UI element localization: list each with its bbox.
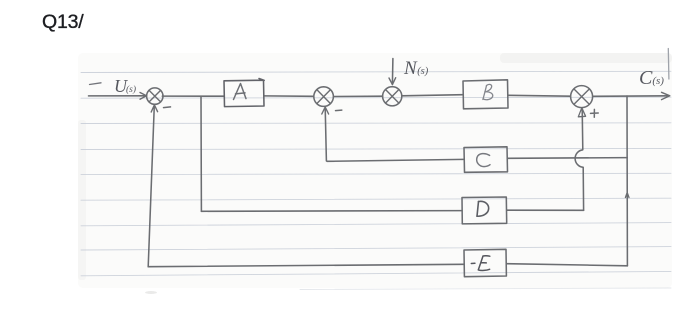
stray dash above input (90, 83, 102, 85)
wire C row right (508, 157, 627, 160)
block B (463, 80, 508, 109)
node takeoff after S4 down to C and E rows (626, 96, 628, 266)
wire input U(s) (89, 95, 147, 97)
wire D row right (507, 209, 584, 211)
wire block A to S2 (264, 95, 314, 97)
block A box (224, 79, 264, 107)
paper photo background (78, 53, 672, 288)
wire B to S4 (508, 94, 570, 97)
wire E feedback up into S1 (148, 105, 154, 266)
paper shading smudges (78, 53, 672, 294)
wire C row left (327, 159, 464, 161)
label U(s) (114, 76, 136, 97)
wire S1 to block A (162, 95, 224, 97)
label C(s) (639, 67, 664, 90)
minus sign at S1 (164, 106, 171, 109)
letter C in block C (477, 154, 490, 167)
node takeoff to D path (200, 96, 202, 211)
wire E row right (506, 264, 627, 266)
letter E in block E (471, 256, 490, 271)
small arrow mark on takeoff line (625, 193, 629, 198)
wire E row left (148, 264, 464, 266)
summing junction S3 (383, 87, 402, 106)
block D (462, 197, 507, 224)
wire D feedback up into S4 with hop over C row (575, 109, 583, 210)
summing junction S4 (571, 86, 593, 108)
letter B in block B (483, 84, 493, 99)
block E (464, 249, 506, 276)
letter D in block D (477, 201, 489, 216)
wire D row left (201, 210, 462, 213)
minus sign at S2 (336, 109, 342, 112)
wire S3 to block B (402, 95, 463, 96)
wire C feedback up into S2 (325, 107, 326, 161)
label N(s) (404, 58, 428, 80)
stray vertical mark top right (667, 49, 670, 80)
wire output to C(s) (593, 95, 669, 98)
paper ruled lines (81, 71, 671, 289)
block C (464, 147, 508, 173)
wire N(s) input arrow (391, 59, 394, 85)
wire S2 to S3 (334, 95, 383, 97)
question label Q13/ (42, 11, 83, 34)
plus sign at S4 (591, 109, 599, 117)
summing junction S2 (314, 87, 334, 107)
summing junction S1 (147, 88, 163, 104)
letter A in block A (234, 84, 247, 100)
